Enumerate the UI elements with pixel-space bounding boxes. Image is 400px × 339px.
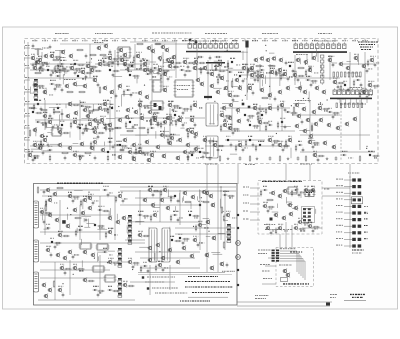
resistor R301 (37, 186, 39, 194)
diode D576 (79, 105, 84, 107)
resistor R549 (246, 68, 254, 70)
transistor Q220 (117, 154, 122, 160)
transistor Q527 (282, 71, 287, 77)
wire (25, 57, 31, 59)
diode D705 (293, 189, 298, 191)
value label (229, 197, 233, 200)
value label (354, 53, 359, 56)
capacitor C655 (162, 268, 165, 273)
value label (270, 67, 275, 70)
border tick (74, 39, 76, 42)
capacitor C623 (302, 148, 305, 153)
wire (31, 148, 43, 150)
transistor Q644 (67, 249, 72, 255)
resistor R697 (132, 152, 140, 154)
connector label (280, 248, 295, 249)
link LK2 (352, 185, 361, 188)
wire (304, 261, 306, 280)
value label (294, 185, 298, 188)
junction (118, 106, 119, 107)
wire (76, 85, 85, 87)
wire (300, 191, 302, 198)
transistor Q693 (162, 119, 167, 124)
sheet note (262, 33, 278, 34)
junction (276, 133, 277, 134)
transistor Q569 (332, 79, 337, 85)
wire (285, 164, 287, 180)
transistor Q536 (97, 61, 102, 67)
wire (155, 124, 166, 126)
coil L649 (189, 214, 191, 216)
value label (213, 140, 217, 143)
resistor R131 (297, 67, 305, 69)
wire (30, 69, 80, 71)
wire (59, 50, 61, 80)
transistor Q331 (147, 257, 152, 263)
wire (300, 191, 305, 193)
resistor R711 (275, 227, 277, 234)
resistor R591 (322, 108, 330, 110)
wire (344, 192, 352, 194)
transistor Q503 (32, 65, 37, 71)
resistor R521 (197, 68, 205, 70)
resistor R707 (267, 206, 275, 208)
wire (344, 212, 352, 214)
wire (250, 203, 260, 205)
transistor Q330 (181, 245, 186, 251)
link label (364, 238, 368, 239)
transistor Q198 (313, 121, 318, 127)
value label (58, 127, 63, 130)
value label (269, 208, 272, 211)
wire (95, 63, 150, 65)
resistor R706 (308, 190, 316, 192)
value label (146, 120, 151, 123)
junction (291, 105, 292, 106)
resistor R701 (167, 137, 169, 144)
transistor Q198 (344, 121, 349, 127)
wire (206, 236, 211, 238)
value label (173, 210, 179, 213)
junction (73, 274, 74, 275)
transistor Q681 (92, 117, 97, 122)
resistor R145 (231, 80, 233, 88)
resistor R213 (79, 154, 81, 161)
link label (336, 225, 343, 226)
value label (170, 133, 176, 136)
connector PL203 (333, 88, 372, 94)
wire (50, 143, 58, 145)
wire (359, 100, 361, 150)
value label (99, 292, 102, 295)
value label (253, 103, 257, 106)
value label (78, 225, 83, 228)
wire (108, 60, 116, 62)
diode D686 (102, 127, 107, 129)
transistor Q302 (52, 191, 57, 197)
wire (42, 211, 44, 221)
wire (84, 226, 90, 228)
transistor Q141 (64, 83, 69, 89)
resistor R613 (120, 145, 128, 147)
capacitor C670 (92, 201, 95, 206)
resistor R573 (359, 91, 361, 98)
wire (92, 104, 94, 110)
value label (128, 70, 132, 73)
border tick (274, 39, 276, 42)
resistor R605 (220, 124, 222, 131)
wire (114, 196, 116, 240)
transistor Q194 (294, 123, 299, 129)
transistor Q707 (262, 203, 267, 208)
resistor R624 (312, 142, 320, 144)
board title text (283, 283, 309, 284)
net label (32, 39, 38, 42)
signal circuits board outline (25, 39, 379, 164)
transistor Q308 (65, 223, 70, 229)
note text (188, 276, 218, 277)
drawing number (352, 297, 363, 298)
junction (366, 146, 367, 147)
resistor R540 (132, 75, 140, 77)
capacitor C643 (50, 253, 53, 258)
coil L173 (248, 106, 251, 109)
wire (296, 251, 298, 272)
board title text (361, 49, 371, 50)
transistor Q318 (201, 189, 206, 195)
resistor R610 (37, 145, 45, 147)
wire (222, 103, 231, 105)
resistor R142 (66, 91, 74, 93)
value label (304, 224, 308, 227)
resistor R660 (87, 280, 95, 282)
resistor R141 (34, 72, 42, 74)
value label (142, 58, 145, 61)
transistor Q192 (296, 113, 301, 119)
wire (28, 151, 205, 153)
coil L103 (245, 41, 248, 48)
value label (163, 85, 169, 88)
value label (368, 68, 372, 71)
transistor Q610 (32, 142, 37, 148)
IC REG4 (104, 275, 117, 282)
diode D516 (152, 67, 157, 69)
wire (135, 220, 144, 222)
wire (47, 131, 52, 133)
net label (272, 39, 278, 42)
wire (169, 108, 171, 145)
value label (76, 71, 81, 74)
diode D522 (227, 71, 232, 73)
transistor Q567 (292, 72, 297, 78)
value label (318, 103, 323, 106)
junction (91, 58, 92, 59)
capacitor C674 (122, 199, 125, 204)
wire (139, 98, 141, 110)
value label (173, 110, 177, 113)
resistor R2313 (359, 155, 361, 162)
wire (259, 64, 261, 90)
transistor Q153 (223, 85, 228, 91)
border tick (54, 39, 56, 42)
capacitor C584 (232, 131, 235, 136)
capacitor C2312 (335, 156, 338, 161)
value label (100, 115, 106, 118)
transistor Q315 (165, 205, 170, 211)
capacitor C141 (32, 63, 35, 68)
value label (109, 106, 113, 109)
capacitor C512 (112, 61, 115, 66)
capacitor C214 (94, 156, 97, 161)
wire (329, 55, 331, 80)
connector PL201 (188, 42, 238, 48)
wire (190, 203, 192, 209)
resistor R709 (312, 226, 320, 228)
capacitor C694 (152, 115, 155, 120)
transistor Q325 (47, 287, 52, 293)
capacitor C562 (97, 83, 100, 88)
value label (34, 157, 38, 160)
value label (311, 185, 315, 188)
value label (250, 70, 256, 73)
capacitor C654 (147, 269, 150, 274)
resistor R629 (202, 152, 210, 154)
wire (62, 75, 64, 85)
diode D592 (327, 111, 332, 113)
wire (81, 260, 83, 267)
wire (250, 211, 260, 213)
wire (30, 87, 32, 94)
crystal X2 (159, 106, 162, 110)
value label (274, 142, 277, 145)
resistor R688 (90, 141, 92, 148)
capacitor C537 (112, 73, 115, 78)
wire (322, 187, 350, 189)
connector PL202 (294, 42, 346, 48)
resistor R678 (53, 107, 55, 114)
wire (349, 52, 351, 90)
resistor R690 (77, 155, 85, 157)
transistor Q603 (177, 117, 182, 123)
transistor Q558 (369, 57, 374, 63)
border tick (294, 39, 296, 42)
wire (179, 193, 181, 203)
net label (25, 112, 30, 115)
resistor R567 (297, 75, 305, 77)
transistor Q512 (107, 55, 112, 61)
transistor Q304 (54, 217, 59, 223)
pin label (243, 195, 248, 196)
wire (290, 191, 297, 193)
capacitor C555 (332, 63, 335, 68)
junction (269, 86, 270, 87)
net label (262, 39, 268, 42)
transistor Q593 (47, 119, 52, 125)
value label (89, 112, 93, 115)
link label (336, 218, 342, 219)
value label (98, 205, 105, 208)
transistor Q195 (302, 128, 307, 134)
transistor Q598 (107, 122, 112, 128)
value label (248, 135, 252, 138)
transistor Q572 (367, 82, 372, 88)
resistor R173 (53, 111, 61, 113)
wire (106, 117, 115, 119)
resistor R608 (265, 124, 267, 131)
transistor Q711 (277, 225, 282, 230)
transistor Q135 (345, 65, 350, 71)
capacitor C504 (50, 73, 53, 78)
IC U401 (287, 187, 299, 194)
wire (231, 108, 233, 131)
transistor Q663 (122, 282, 127, 288)
diode D530 (213, 69, 218, 71)
transistor Q647 (152, 212, 157, 218)
value label (288, 135, 292, 138)
wire (280, 250, 297, 252)
wire (316, 47, 318, 56)
wire (217, 164, 219, 186)
transistor Q193 (305, 117, 310, 123)
resistor R561 (54, 84, 62, 86)
wire (120, 190, 236, 192)
transistor Q556 (353, 55, 358, 61)
capacitor C303 (85, 218, 88, 223)
pin label (243, 219, 249, 220)
capacitor C673 (152, 193, 155, 198)
border tick (284, 39, 286, 42)
transistor Q521 (192, 65, 197, 71)
wire (349, 164, 351, 178)
transistor Q404 (287, 202, 292, 208)
transistor Q344 (204, 252, 209, 258)
resistor R620 (272, 140, 280, 142)
diode D698 (137, 147, 142, 149)
wire (344, 245, 352, 247)
border tick (314, 39, 316, 42)
transistor Q630 (312, 152, 317, 158)
resistor R576 (84, 106, 92, 108)
wire (163, 59, 165, 64)
resistor R558 (367, 59, 369, 66)
resistor R550 (254, 75, 262, 77)
revision note (330, 294, 337, 295)
resistor R590 (290, 112, 298, 114)
value label (42, 48, 49, 49)
diode D675 (102, 189, 107, 191)
rectifier D301 (62, 220, 65, 224)
net label (92, 39, 98, 42)
bus bar (293, 51, 347, 53)
value label (42, 124, 46, 127)
transistor Q132 (303, 59, 308, 65)
capacitor C629 (202, 155, 205, 160)
value label (103, 99, 109, 102)
border tick (104, 39, 106, 42)
wire (218, 232, 226, 234)
value label (108, 64, 111, 67)
capacitor C652 (182, 241, 185, 246)
value label (98, 59, 104, 62)
resistor R530 (218, 70, 226, 72)
resistor R570 (340, 84, 342, 91)
IC REG1 (79, 243, 93, 249)
junction (149, 260, 150, 261)
resistor R595 (70, 121, 72, 128)
resistor R542 (162, 70, 170, 72)
value label (58, 230, 63, 233)
capacitor C707 (267, 209, 270, 214)
transistor Q539 (135, 53, 140, 59)
note text (185, 287, 232, 288)
wire (116, 214, 118, 220)
wire (175, 40, 177, 78)
wire (97, 251, 104, 253)
value label (130, 61, 134, 64)
value label (50, 51, 54, 54)
wire (151, 44, 153, 100)
value label (254, 127, 258, 130)
value label (123, 280, 128, 283)
module note (264, 224, 275, 225)
capacitor C710 (270, 231, 273, 236)
value label (210, 69, 215, 72)
junction (132, 108, 133, 109)
transistor Q560 (42, 89, 47, 95)
value label (109, 192, 113, 195)
junction (62, 283, 63, 284)
junction (320, 102, 321, 103)
wire (247, 67, 249, 78)
transistor Q677 (42, 113, 47, 118)
capacitor C103 (85, 54, 88, 59)
border tick (164, 39, 166, 42)
wire (322, 195, 350, 197)
value label (114, 234, 117, 237)
transistor Q213 (193, 146, 198, 152)
coil L628 (191, 154, 193, 156)
coil L696 (119, 144, 121, 146)
diode D631 (341, 154, 346, 156)
wire (179, 190, 181, 225)
value label (190, 115, 194, 118)
wire (140, 267, 200, 269)
value label (88, 119, 93, 122)
capacitor C569 (337, 85, 340, 90)
terminal (237, 227, 239, 229)
capacitor C519 (174, 65, 177, 70)
coil L695 (174, 114, 176, 116)
capacitor C573 (366, 95, 369, 100)
transistor Q185 (227, 115, 232, 121)
net label (72, 39, 78, 42)
border tick (114, 39, 116, 42)
value label (278, 223, 284, 226)
wire (44, 90, 46, 95)
note text (145, 282, 165, 283)
transistor Q203 (79, 141, 84, 147)
border tick (214, 39, 216, 42)
capacitor C502 (42, 63, 45, 68)
transistor Q144 (102, 85, 107, 91)
wire (219, 64, 221, 72)
resistor R507 (85, 72, 93, 74)
transistor Q700 (159, 132, 164, 137)
value label (284, 147, 288, 150)
transistor Q607 (257, 119, 262, 125)
bus wire (349, 176, 351, 248)
transistor Q406 (273, 212, 278, 218)
